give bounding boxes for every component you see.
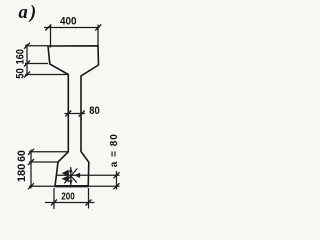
- dim 60/180: dimension line (left bottom, vertical): [30, 150, 32, 189]
- dim 160/50: tick top: [24, 43, 30, 49]
- dim 400: dimension line: [44, 27, 100, 29]
- dim 160/50: extension line middle (flange bottom): [25, 63, 48, 65]
- svg-text:60: 60: [16, 150, 28, 162]
- svg-text:200: 200: [61, 192, 75, 203]
- svg-text:50: 50: [14, 68, 26, 79]
- reinforcement centroid symbol (star): west upper arrowhead: [62, 170, 69, 177]
- dim a=80: dimension line (vertical): [116, 171, 118, 190]
- reinforcement centroid symbol (star): SE stroke: [71, 176, 77, 183]
- dim 200: tick left: [51, 200, 57, 206]
- dim a=80: bottom extension line: [88, 185, 120, 187]
- dim 400: extension line right: [97, 25, 99, 47]
- dim 160/50: tick middle: [24, 61, 30, 67]
- dim 400: tick right: [95, 25, 101, 31]
- reinforcement centroid symbol (star): bottom arrowhead: [69, 180, 73, 184]
- dim a=80: tick bottom: [114, 183, 120, 189]
- svg-text:400: 400: [60, 16, 77, 28]
- dim 400: extension line left: [50, 25, 52, 48]
- dim 200: dimension line: [45, 202, 95, 204]
- svg-text:180: 180: [16, 164, 28, 183]
- dim 80: tick left: [65, 111, 71, 117]
- reinforcement centroid symbol (star): east arrowhead on line: [74, 173, 80, 178]
- dim 160/50: tick bottom: [24, 72, 30, 78]
- beam outline (I-section): [48, 46, 99, 186]
- dim 60/180: tick middle: [28, 159, 34, 165]
- reinforcement centroid symbol (star): vertical arrow shaft: [70, 167, 72, 185]
- svg-text:a = 80: a = 80: [109, 133, 120, 167]
- dim a=80: reinforcement centroid line: [57, 174, 120, 176]
- dim 160/50: extension line bottom (taper end): [25, 74, 69, 76]
- dim 60/180: tick bottom: [28, 183, 34, 189]
- dim 60/180: extension line middle (bottom flange top): [29, 161, 58, 163]
- dim 200: tick right: [86, 200, 92, 206]
- dim 160/50: extension line top (flange top): [25, 45, 48, 47]
- svg-text:80: 80: [89, 105, 100, 117]
- dim 400: tick left: [45, 25, 51, 31]
- reinforcement centroid symbol (star): top arrowhead: [69, 168, 73, 172]
- reinforcement centroid symbol (star): NE-SW diagonal: [64, 169, 77, 184]
- dim 200: extension line left: [53, 188, 55, 209]
- dim 60/180: extension line bottom (beam bottom): [29, 185, 55, 187]
- dim 160/50: dimension line (left, vertical): [26, 44, 28, 76]
- dim 80: tick right: [79, 111, 85, 117]
- dim 60/180: extension line top (flare start): [29, 151, 69, 153]
- svg-text:160: 160: [14, 49, 26, 65]
- svg-text:a): a): [19, 3, 37, 23]
- dim a=80: tick top: [114, 172, 120, 178]
- dim 200: extension line right: [88, 188, 90, 209]
- dim 80 (web width): dimension line: [65, 113, 86, 115]
- dim 60/180: tick top: [28, 149, 34, 155]
- reinforcement centroid symbol (star): west lower arrowhead: [62, 175, 69, 182]
- beam bottom edge (thick): [55, 185, 89, 187]
